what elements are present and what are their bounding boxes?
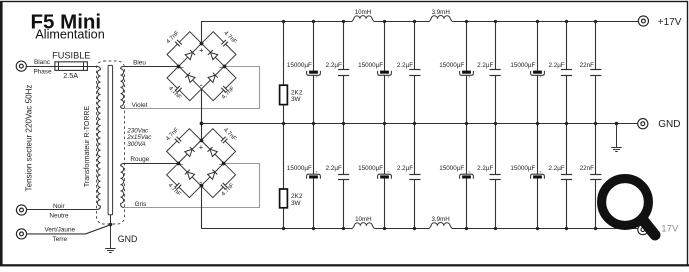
- capacitor C6b 2.2µF: [414, 124, 416, 174]
- node transformer ground junction: [109, 223, 113, 227]
- svg-text:FUSIBLE: FUSIBLE: [52, 50, 90, 60]
- svg-text:2.2µF: 2.2µF: [477, 165, 493, 172]
- ground symbol (output GND): [611, 148, 622, 152]
- wire core to ground junction: [110, 215, 112, 225]
- svg-text:Noir: Noir: [53, 203, 66, 210]
- svg-text:2.2µF: 2.2µF: [548, 165, 564, 172]
- capacitor C4b 15000uF: [537, 124, 539, 175]
- transformer R-TORRE enclosure (dashed): [97, 61, 125, 224]
- wire fuse to transformer primary: [87, 67, 100, 70]
- node GND stub junction: [615, 122, 619, 126]
- svg-text:15000µF: 15000µF: [510, 165, 535, 172]
- capacitor C7b 2.2µF: [495, 124, 497, 174]
- wire Phase input: [27, 66, 55, 68]
- svg-text:300VA: 300VA: [127, 141, 146, 148]
- wire primary to Neutre: [27, 206, 101, 210]
- svg-text:~: ~: [180, 65, 184, 72]
- svg-text:2.5A: 2.5A: [63, 71, 78, 80]
- wire B2 + to mid rail: [201, 124, 203, 141]
- wire Bleu: [124, 66, 179, 68]
- diode B2b: [208, 147, 218, 157]
- svg-text:Rouge: Rouge: [130, 156, 149, 163]
- transformer primary winding: [97, 70, 100, 206]
- svg-text:15000µF: 15000µF: [287, 165, 312, 172]
- capacitor C6t 2.2µF: [414, 21, 416, 70]
- svg-text:22nF: 22nF: [580, 62, 595, 69]
- capacitor B2 snubber UR 4.7nF: [201, 126, 238, 163]
- capacitor C1b 15000uF: [313, 124, 315, 175]
- diode B1b: [208, 50, 218, 60]
- wire bottom rail (-17V): [201, 228, 352, 230]
- svg-text:2.2µF: 2.2µF: [397, 165, 413, 172]
- wire Violet (to upper bridge right node): [124, 67, 260, 109]
- capacitor C8t 2.2µF: [566, 21, 568, 70]
- svg-text:Vert/Jaune: Vert/Jaune: [45, 226, 76, 233]
- svg-text:3W: 3W: [291, 96, 302, 103]
- terminal Terre (Vert/Jaune): [16, 229, 26, 239]
- node junctions top rail: [282, 20, 285, 23]
- capacitor C8b 2.2µF: [566, 124, 568, 174]
- capacitor C9t 22nF: [595, 21, 597, 70]
- terminal +17V output: [638, 16, 648, 26]
- capacitor C2b 15000uF: [384, 124, 386, 175]
- resistor R2 2K2 3W: [283, 124, 285, 189]
- fuse FUSIBLE 2.5A: [55, 62, 88, 71]
- inductor L3 10mH: [352, 223, 374, 229]
- svg-text:10mH: 10mH: [355, 216, 372, 223]
- svg-text:Neutre: Neutre: [49, 213, 69, 220]
- inductor L2 3.9mH: [429, 16, 452, 22]
- svg-text:3.9mH: 3.9mH: [431, 216, 449, 223]
- terminal -17V output: [638, 225, 648, 235]
- transformer secondary winding 2: [121, 164, 124, 166]
- svg-text:+: +: [199, 45, 204, 54]
- node B2 AC right: [222, 162, 226, 166]
- terminal Phase (Blanc): [16, 61, 26, 71]
- svg-text:Bleu: Bleu: [133, 59, 146, 66]
- svg-text:2.2µF: 2.2µF: [397, 62, 413, 69]
- svg-text:2.2µF: 2.2µF: [548, 62, 564, 69]
- capacitor C5b 2.2µF: [343, 124, 345, 174]
- transformer secondary winding 1: [121, 67, 124, 69]
- svg-text:GND: GND: [118, 234, 138, 244]
- node junctions mid rail: [282, 122, 285, 125]
- diode B1d: [208, 73, 218, 83]
- svg-text:3.9mH: 3.9mH: [432, 9, 450, 16]
- ground symbol (transformer earth): [105, 249, 115, 253]
- capacitor C9b 22nF: [595, 124, 597, 174]
- wire Rouge: [124, 163, 178, 165]
- wire mid rail (GND): [201, 123, 637, 125]
- inductor L1 10mH: [352, 16, 374, 22]
- node junctions bottom rail: [282, 227, 285, 230]
- wire Terre to ground junction: [27, 225, 111, 234]
- capacitor B2 snubber LR 4.7nF: [201, 163, 238, 200]
- diode B2d: [208, 170, 218, 180]
- diode B1a: [185, 50, 195, 60]
- capacitor B1 snubber LL 4.7nF: [165, 66, 202, 103]
- wire top rail (+17V): [202, 21, 353, 23]
- capacitor C7t 2.2µF: [495, 21, 497, 70]
- svg-text:2.2µF: 2.2µF: [326, 165, 342, 172]
- svg-text:Alimentation: Alimentation: [35, 28, 104, 42]
- bridge rectifier B1: [179, 43, 225, 88]
- wire junction to earth symbol: [110, 225, 112, 248]
- capacitor B2 snubber LL 4.7nF: [164, 163, 201, 200]
- svg-text:~: ~: [219, 65, 223, 72]
- svg-text:15000µF: 15000µF: [510, 62, 535, 69]
- svg-text:15000µF: 15000µF: [439, 62, 464, 69]
- inductor L4 3.9mH: [429, 223, 452, 229]
- svg-text:Phase: Phase: [33, 68, 52, 75]
- capacitor C1t 15000uF: [313, 21, 315, 71]
- terminal Neutre (Noir): [16, 205, 26, 215]
- svg-text:15000µF: 15000µF: [439, 165, 464, 172]
- capacitor C3t 15000uF: [466, 21, 468, 71]
- svg-text:2.2µF: 2.2µF: [477, 62, 493, 69]
- capacitor B2 snubber UL 4.7nF: [164, 126, 201, 163]
- capacitor C4t 15000uF: [537, 21, 539, 71]
- node B2 AC left: [177, 162, 181, 166]
- capacitor B1 snubber UR 4.7nF: [201, 29, 238, 66]
- svg-text:Blanc: Blanc: [34, 59, 51, 66]
- svg-text:22nF: 22nF: [580, 165, 595, 172]
- capacitor C3b 15000uF: [466, 124, 468, 175]
- svg-text:+17V: +17V: [658, 17, 682, 28]
- wire B1 + to top rail: [201, 21, 203, 43]
- svg-text:Violet: Violet: [132, 102, 148, 109]
- svg-text:GND: GND: [658, 119, 680, 130]
- wire B2 - to bottom rail: [201, 186, 203, 228]
- resistor R1 2K2 3W: [283, 21, 285, 85]
- svg-text:10mH: 10mH: [355, 9, 372, 16]
- bridge rectifier B2: [178, 140, 224, 186]
- node B2 -: [200, 184, 204, 188]
- svg-text:+: +: [199, 142, 204, 151]
- svg-text:Tension secteur 220Vac 50Hz: Tension secteur 220Vac 50Hz: [25, 85, 34, 192]
- svg-text:Gris: Gris: [135, 201, 147, 208]
- svg-text:Transformateur R-TORRE: Transformateur R-TORRE: [84, 106, 91, 188]
- svg-text:15000µF: 15000µF: [358, 62, 383, 69]
- svg-text:-: -: [200, 80, 203, 90]
- wire B1 - to mid rail: [201, 89, 203, 124]
- diode B2a: [185, 147, 195, 157]
- wire Gris (to lower bridge right node): [124, 164, 260, 208]
- node B1 AC left: [177, 65, 181, 69]
- svg-text:15000µF: 15000µF: [358, 165, 383, 172]
- transformer core: [108, 65, 113, 214]
- terminal GND output: [638, 119, 648, 129]
- node B1 +: [200, 42, 204, 46]
- svg-text:3W: 3W: [291, 200, 302, 207]
- svg-text:17V: 17V: [661, 224, 679, 235]
- node B2 +: [200, 139, 204, 143]
- magnifier icon (zoom overlay): [602, 179, 655, 235]
- capacitor C5t 2.2µF: [343, 21, 345, 70]
- node B1 AC right: [223, 65, 227, 69]
- diode B2c: [185, 170, 195, 180]
- svg-text:2.2µF: 2.2µF: [326, 62, 342, 69]
- capacitor C2t 15000uF: [384, 21, 386, 71]
- svg-text:15000µF: 15000µF: [287, 62, 312, 69]
- capacitor B1 snubber UL 4.7nF: [165, 29, 202, 66]
- wire GND stub: [616, 124, 618, 148]
- svg-text:Terre: Terre: [53, 236, 68, 243]
- capacitor B1 snubber LR 4.7nF: [201, 66, 238, 103]
- node mid rail left end: [200, 122, 204, 126]
- diode B1c: [185, 73, 195, 83]
